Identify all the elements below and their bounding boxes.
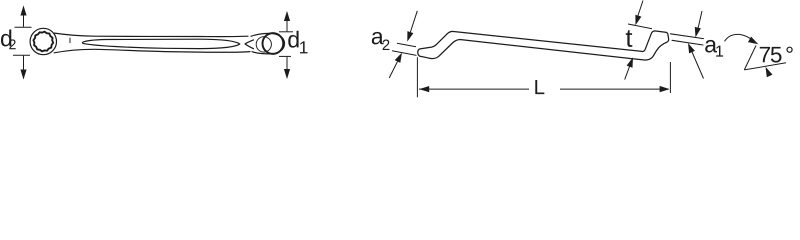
shank recess lens (inner lines) [82,39,239,48]
forge mark tick in neck [69,38,71,43]
dimension graphics [13,7,293,79]
right head outer egg [251,33,285,54]
a1 arrowhead down [695,27,701,38]
label 75deg digit 7 [760,47,770,62]
label a1 subscript 1 [716,46,723,57]
a1 up arrow shaft [692,52,704,79]
a2 tick lower [392,51,417,56]
t tick top [628,24,652,29]
a2 down arrow shaft [410,11,417,33]
d2 tick top [15,26,32,28]
L arrowhead right [660,86,670,92]
label a2 letter a [372,32,384,45]
d2 tick bottom [13,54,30,56]
t arrowhead up [627,57,633,68]
a1 ring extension tick top [671,34,704,39]
d2 arrowhead up [20,6,26,16]
75deg curved arrow arc [725,34,754,41]
a2 tick upper [397,43,416,47]
L dimension line [419,88,669,90]
L extension line right [669,62,671,93]
a1 ring extension tick bottom [672,40,703,45]
label d1 subscript 1 [300,41,308,53]
d1 arrow shafts [286,12,288,78]
label 75deg degree sign [786,47,792,53]
wrench side profile outline [418,31,669,60]
75deg arrowhead lower [766,67,773,77]
d2 arrowhead down [20,70,26,80]
right head bore lens [256,37,271,52]
right head bore circle (bold) [263,33,284,54]
a2 arrowhead up [395,53,402,63]
label d2 letter d [1,30,11,47]
d1 tick bottom [279,55,291,57]
label a1 letter a [705,40,717,53]
label 75deg digit 5 [771,47,782,63]
labels rendered as Liberation Sans outlines [1,30,793,95]
t up arrow shaft [625,67,630,80]
label d2 subscript 2 [9,39,15,49]
label t [626,30,633,47]
shank outer bottom line (top view) [54,49,250,53]
a2 arrowhead down [407,31,413,41]
d2 arrow shafts [23,7,25,79]
75deg horizontal line [744,63,786,70]
a2 up arrow shaft [389,62,397,79]
a1 arrowhead up [688,43,695,53]
12-point profile left ring [33,32,53,52]
d1 tick top [279,31,293,33]
shank outer top line (top view) [55,33,249,37]
ring outer circle left head [30,28,56,54]
t down arrow shaft [638,1,644,18]
L arrowhead left [419,86,429,92]
L extension line left [416,57,418,97]
t arrowhead down [635,15,641,25]
label d1 letter d [288,31,298,48]
75deg steep line [744,46,756,70]
d1 arrowhead up [284,11,290,21]
label a2 subscript 2 [383,40,390,50]
neck dart at right head [245,40,254,49]
label L [535,80,544,94]
d1 arrowhead down [284,69,290,79]
a1 down arrow shaft [698,11,702,29]
75deg arrowhead upper [748,37,758,45]
